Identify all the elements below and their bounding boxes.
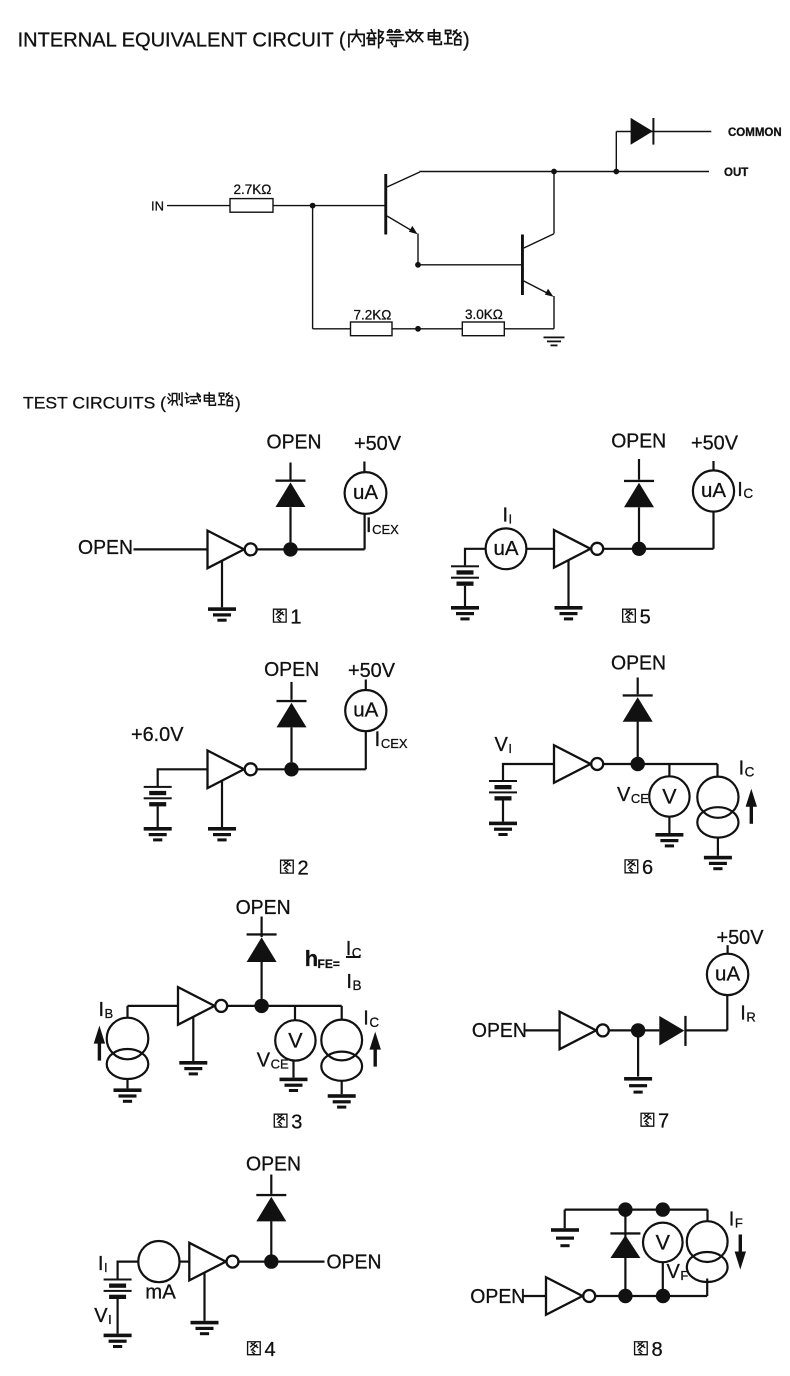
svg-text:OPEN: OPEN: [78, 537, 133, 559]
svg-text:7.2KΩ: 7.2KΩ: [354, 308, 392, 323]
svg-text:V: V: [656, 1230, 671, 1254]
svg-text:OPEN: OPEN: [472, 1020, 527, 1042]
svg-text:I: I: [366, 514, 372, 537]
svg-text:2: 2: [298, 857, 309, 879]
svg-text:mA: mA: [145, 1282, 176, 1304]
svg-text:uA: uA: [353, 699, 378, 722]
svg-text:CEX: CEX: [372, 522, 399, 537]
svg-text:B: B: [352, 978, 361, 993]
svg-text:C: C: [352, 945, 362, 960]
svg-text:IN: IN: [151, 199, 164, 214]
svg-text:+6.0V: +6.0V: [131, 724, 184, 746]
svg-text:OPEN: OPEN: [267, 432, 322, 454]
svg-text:I: I: [98, 1253, 104, 1275]
svg-text:OPEN: OPEN: [327, 1252, 382, 1274]
svg-text:CEX: CEX: [381, 736, 408, 751]
svg-text:OPEN: OPEN: [236, 897, 291, 919]
svg-text:OPEN: OPEN: [246, 1154, 301, 1176]
svg-text:C: C: [743, 486, 753, 501]
svg-text:I: I: [375, 728, 381, 751]
svg-text:F: F: [735, 1216, 743, 1231]
svg-text:3: 3: [291, 1111, 302, 1133]
svg-text:I: I: [508, 741, 512, 756]
svg-text:I: I: [729, 1209, 735, 1231]
svg-text:I: I: [740, 1003, 746, 1025]
svg-text:OPEN: OPEN: [611, 431, 666, 453]
svg-text:3.0KΩ: 3.0KΩ: [465, 307, 503, 322]
svg-text:OPEN: OPEN: [470, 1286, 525, 1308]
svg-text:I: I: [363, 1008, 369, 1030]
svg-text:8: 8: [652, 1339, 663, 1361]
svg-text:I: I: [104, 1260, 108, 1275]
svg-text:V: V: [617, 784, 631, 806]
svg-text:7: 7: [658, 1111, 669, 1133]
svg-text:CE: CE: [271, 1057, 289, 1072]
svg-text:2.7KΩ: 2.7KΩ: [234, 182, 272, 197]
svg-text:uA: uA: [353, 481, 378, 504]
svg-text:h: h: [305, 946, 318, 971]
svg-text:C: C: [369, 1015, 379, 1030]
svg-text:I: I: [739, 758, 745, 780]
svg-text:I: I: [99, 999, 105, 1021]
svg-text:+50V: +50V: [348, 660, 396, 682]
svg-text:FE=: FE=: [318, 957, 340, 971]
svg-text:OPEN: OPEN: [611, 653, 666, 675]
svg-text:): ): [463, 29, 470, 51]
svg-text:uA: uA: [701, 479, 726, 502]
svg-text:V: V: [288, 1028, 303, 1052]
svg-text:R: R: [746, 1010, 755, 1025]
svg-text:OPEN: OPEN: [264, 659, 319, 681]
svg-text:OUT: OUT: [724, 167, 748, 179]
svg-text:6: 6: [642, 857, 653, 879]
svg-text:V: V: [662, 785, 677, 809]
svg-text:B: B: [105, 1006, 114, 1021]
svg-text:COMMON: COMMON: [728, 127, 782, 139]
svg-text:uA: uA: [715, 963, 740, 986]
svg-text:I: I: [737, 479, 743, 501]
svg-text:1: 1: [290, 606, 301, 628]
svg-text:+50V: +50V: [354, 433, 402, 455]
svg-text:INTERNAL EQUIVALENT CIRCUIT (: INTERNAL EQUIVALENT CIRCUIT (: [18, 29, 346, 51]
svg-text:): ): [235, 393, 241, 412]
svg-text:C: C: [745, 765, 755, 780]
svg-text:V: V: [94, 1305, 108, 1327]
svg-text:I: I: [509, 512, 513, 527]
svg-text:V: V: [667, 1261, 681, 1283]
svg-text:TEST CIRCUITS (: TEST CIRCUITS (: [23, 393, 166, 412]
svg-text:V: V: [495, 734, 509, 756]
svg-text:uA: uA: [493, 537, 518, 560]
svg-text:4: 4: [265, 1339, 276, 1361]
svg-text:I: I: [346, 971, 352, 993]
svg-text:+50V: +50V: [691, 433, 739, 455]
svg-text:CE: CE: [631, 791, 649, 806]
svg-text:+50V: +50V: [717, 927, 765, 949]
svg-text:I: I: [503, 505, 509, 527]
svg-text:I: I: [108, 1312, 112, 1327]
svg-text:V: V: [257, 1050, 271, 1072]
svg-text:5: 5: [640, 606, 651, 628]
